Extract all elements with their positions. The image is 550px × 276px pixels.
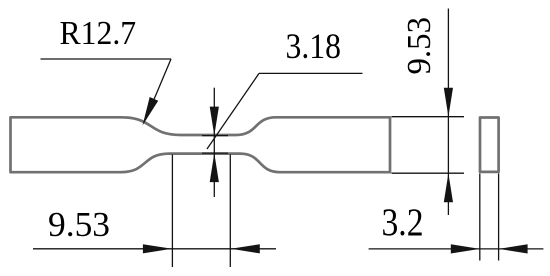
svg-text:9.53: 9.53: [401, 17, 438, 75]
svg-text:3.2: 3.2: [382, 201, 424, 244]
svg-text:9.53: 9.53: [48, 205, 110, 244]
svg-text:3.18: 3.18: [286, 26, 341, 66]
svg-text:R12.7: R12.7: [60, 15, 137, 52]
